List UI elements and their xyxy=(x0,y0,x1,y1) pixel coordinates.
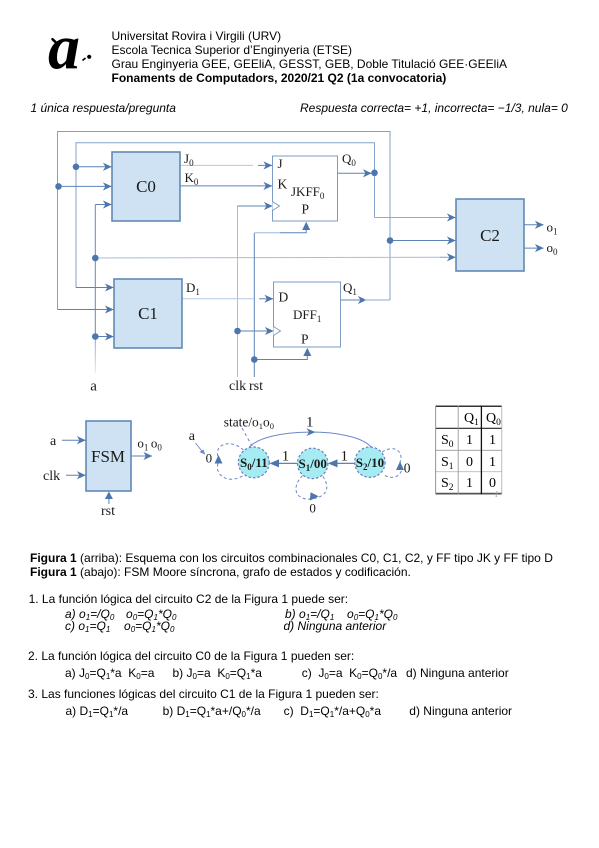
svg-text:K0: K0 xyxy=(185,170,199,187)
svg-text:D1: D1 xyxy=(186,280,200,297)
wire rst to JKFF preset xyxy=(254,232,280,234)
label J0 xyxy=(184,151,194,168)
wire a to C0 bottom input xyxy=(95,204,111,206)
label Q0 out xyxy=(342,151,356,168)
label 0 (S0 loop) xyxy=(206,450,213,465)
svg-text:1: 1 xyxy=(466,433,473,448)
state graph: arc S0 to S2 xyxy=(249,428,371,447)
flip-flop DFF1 box xyxy=(274,282,341,347)
svg-text:1: 1 xyxy=(306,415,314,431)
edge S1 to S0 xyxy=(269,459,297,467)
label 0 (S2 loop) xyxy=(404,461,411,476)
svg-text:a: a xyxy=(90,379,97,395)
svg-text:K: K xyxy=(278,177,288,192)
wire a to C2 bottom arrow xyxy=(440,256,456,258)
wire rst to DFF preset xyxy=(254,356,307,360)
svg-text:FSM: FSM xyxy=(91,447,125,466)
wire Q0 node to C2 top input xyxy=(375,217,456,219)
wire Q0 to C1 top input xyxy=(76,287,114,289)
svg-text:C0: C0 xyxy=(136,177,156,196)
wire Q1 feedback: DFF Q up left loop xyxy=(58,132,391,310)
svg-text:1: 1 xyxy=(282,448,290,464)
svg-text:P: P xyxy=(302,201,310,216)
block C0 xyxy=(112,152,180,221)
block FSM xyxy=(86,421,131,491)
wire J0: C0 to JKFF J xyxy=(180,164,253,166)
wire C2 out o0 xyxy=(524,247,544,249)
svg-text:J: J xyxy=(278,156,283,171)
DFF clock pin symbol xyxy=(274,327,281,336)
FSM rst arrow xyxy=(105,492,113,505)
svg-text:S1/00: S1/00 xyxy=(299,456,327,473)
junction Q1-C0 xyxy=(55,183,62,190)
wire clk to JKFF clock xyxy=(238,205,273,207)
wire a vertical xyxy=(94,205,96,337)
schematic svg layer xyxy=(0,0,599,530)
label o1 xyxy=(547,219,558,236)
junction clk-DFF xyxy=(234,328,241,335)
arrow DFF preset P xyxy=(303,348,311,356)
svg-text:S2/10: S2/10 xyxy=(356,455,384,472)
label 1 (S2-S1) xyxy=(341,448,349,464)
label D1 xyxy=(186,280,200,297)
svg-text:o1o0: o1o0 xyxy=(137,435,162,452)
block C2 xyxy=(456,199,524,271)
svg-text:0: 0 xyxy=(489,476,496,491)
state S2 xyxy=(355,447,385,477)
flip-flop JKFF0 box xyxy=(273,156,338,221)
svg-text:0: 0 xyxy=(404,461,411,476)
label o0 xyxy=(547,240,559,257)
wire Q1 node to C2 mid input xyxy=(390,240,456,242)
svg-text:C1: C1 xyxy=(138,304,158,323)
wire a tail light xyxy=(94,337,96,374)
wire clk vertical xyxy=(238,206,241,377)
JKFF clock pin symbol xyxy=(273,202,280,211)
self loop S0 arrow xyxy=(215,455,223,464)
svg-text:a: a xyxy=(189,429,196,444)
label rst xyxy=(249,379,263,394)
label 0 (S1 loop) xyxy=(309,500,316,515)
FSM output wire xyxy=(131,455,152,457)
graph label 1 top xyxy=(306,415,314,431)
wire Q0 feedback loop xyxy=(76,143,375,288)
wire Q0dot to C0 top input xyxy=(76,166,112,168)
FSM input clk wire xyxy=(66,474,86,476)
wire Q1dot to C0 mid input xyxy=(58,185,112,187)
svg-text:1: 1 xyxy=(341,448,349,464)
annotation a with arrow xyxy=(189,429,196,444)
arrow JKFF preset P xyxy=(302,222,310,230)
FSM label a xyxy=(50,434,57,449)
junction Q0 node xyxy=(371,170,378,177)
junction a-C0 region dots xyxy=(73,164,80,171)
question 3 xyxy=(28,687,379,701)
svg-text:clk: clk xyxy=(43,469,60,484)
svg-text:rst: rst xyxy=(249,379,263,394)
FSM input a wire xyxy=(62,439,86,441)
edge S2 to S1 xyxy=(328,459,355,467)
svg-text:1: 1 xyxy=(489,433,496,448)
wire a to C1 bottom input xyxy=(95,336,113,338)
svg-text:rst: rst xyxy=(101,504,115,519)
label Q1 out xyxy=(343,280,357,297)
svg-text:S0/11: S0/11 xyxy=(240,455,268,472)
wire DFF Q out xyxy=(341,299,367,301)
FSM label rst xyxy=(101,504,115,519)
svg-text:Q1: Q1 xyxy=(343,280,357,297)
junction a-C1 xyxy=(92,333,99,340)
label a xyxy=(90,379,97,395)
svg-text:a: a xyxy=(50,434,57,449)
svg-text:o1: o1 xyxy=(547,219,558,236)
svg-text:C2: C2 xyxy=(480,226,500,245)
table corner artifact xyxy=(495,490,498,499)
self loop S2 arrow xyxy=(396,462,404,471)
svg-text:J0: J0 xyxy=(184,151,194,168)
state S0 xyxy=(238,447,269,478)
svg-text:state/o1o0: state/o1o0 xyxy=(224,414,274,431)
self loop S2 xyxy=(382,449,402,478)
header logo URV xyxy=(46,30,100,75)
junction Q1-C2 xyxy=(387,237,394,244)
FSM label o1o0 xyxy=(137,435,162,452)
svg-text:P: P xyxy=(301,332,309,347)
figure captions xyxy=(30,551,553,579)
question 2 xyxy=(28,649,354,663)
question 1 xyxy=(29,592,349,606)
block C1 xyxy=(114,279,182,348)
svg-text:0: 0 xyxy=(206,450,213,465)
label K0 xyxy=(185,170,199,187)
wire clk to DFF clock xyxy=(238,330,274,332)
svg-text:f: f xyxy=(495,490,498,499)
FSM label clk xyxy=(43,469,60,484)
svg-text:JKFF0: JKFF0 xyxy=(291,184,325,201)
svg-text:0: 0 xyxy=(466,455,473,470)
svg-text:Q0: Q0 xyxy=(342,151,356,168)
wire K0: C0 to JKFF K xyxy=(180,185,272,187)
svg-text:1: 1 xyxy=(489,455,496,470)
coding table xyxy=(436,406,503,495)
junction a-C2 xyxy=(92,255,99,262)
wire Q1 to C1 mid input xyxy=(58,309,114,311)
svg-text:o0: o0 xyxy=(547,240,559,257)
label 1 (S1-S0) xyxy=(282,448,290,464)
wire a to C2 long xyxy=(95,256,446,259)
label state/o1o0 xyxy=(224,414,274,431)
label clk xyxy=(229,379,246,394)
self loop S1 xyxy=(296,476,327,500)
state S1 xyxy=(298,448,328,478)
self loop S0 xyxy=(217,444,244,480)
leader dashed from label to S0 xyxy=(242,428,252,446)
exam rules line xyxy=(31,101,176,115)
svg-text:D: D xyxy=(279,290,289,305)
header text xyxy=(112,29,507,85)
svg-text:1: 1 xyxy=(466,476,473,491)
junction rst-DFF xyxy=(251,356,258,363)
wire D1: C1 to DFF D xyxy=(182,298,254,300)
wire DFF Q to vertical xyxy=(364,299,390,301)
self loop S1 arrow xyxy=(310,492,319,500)
wire C2 out o1 xyxy=(524,224,544,226)
svg-text:clk: clk xyxy=(229,379,246,394)
wire rst vertical xyxy=(253,233,255,377)
wire JKFF Q out to node Q0 xyxy=(338,172,372,174)
svg-text:0: 0 xyxy=(309,500,316,515)
